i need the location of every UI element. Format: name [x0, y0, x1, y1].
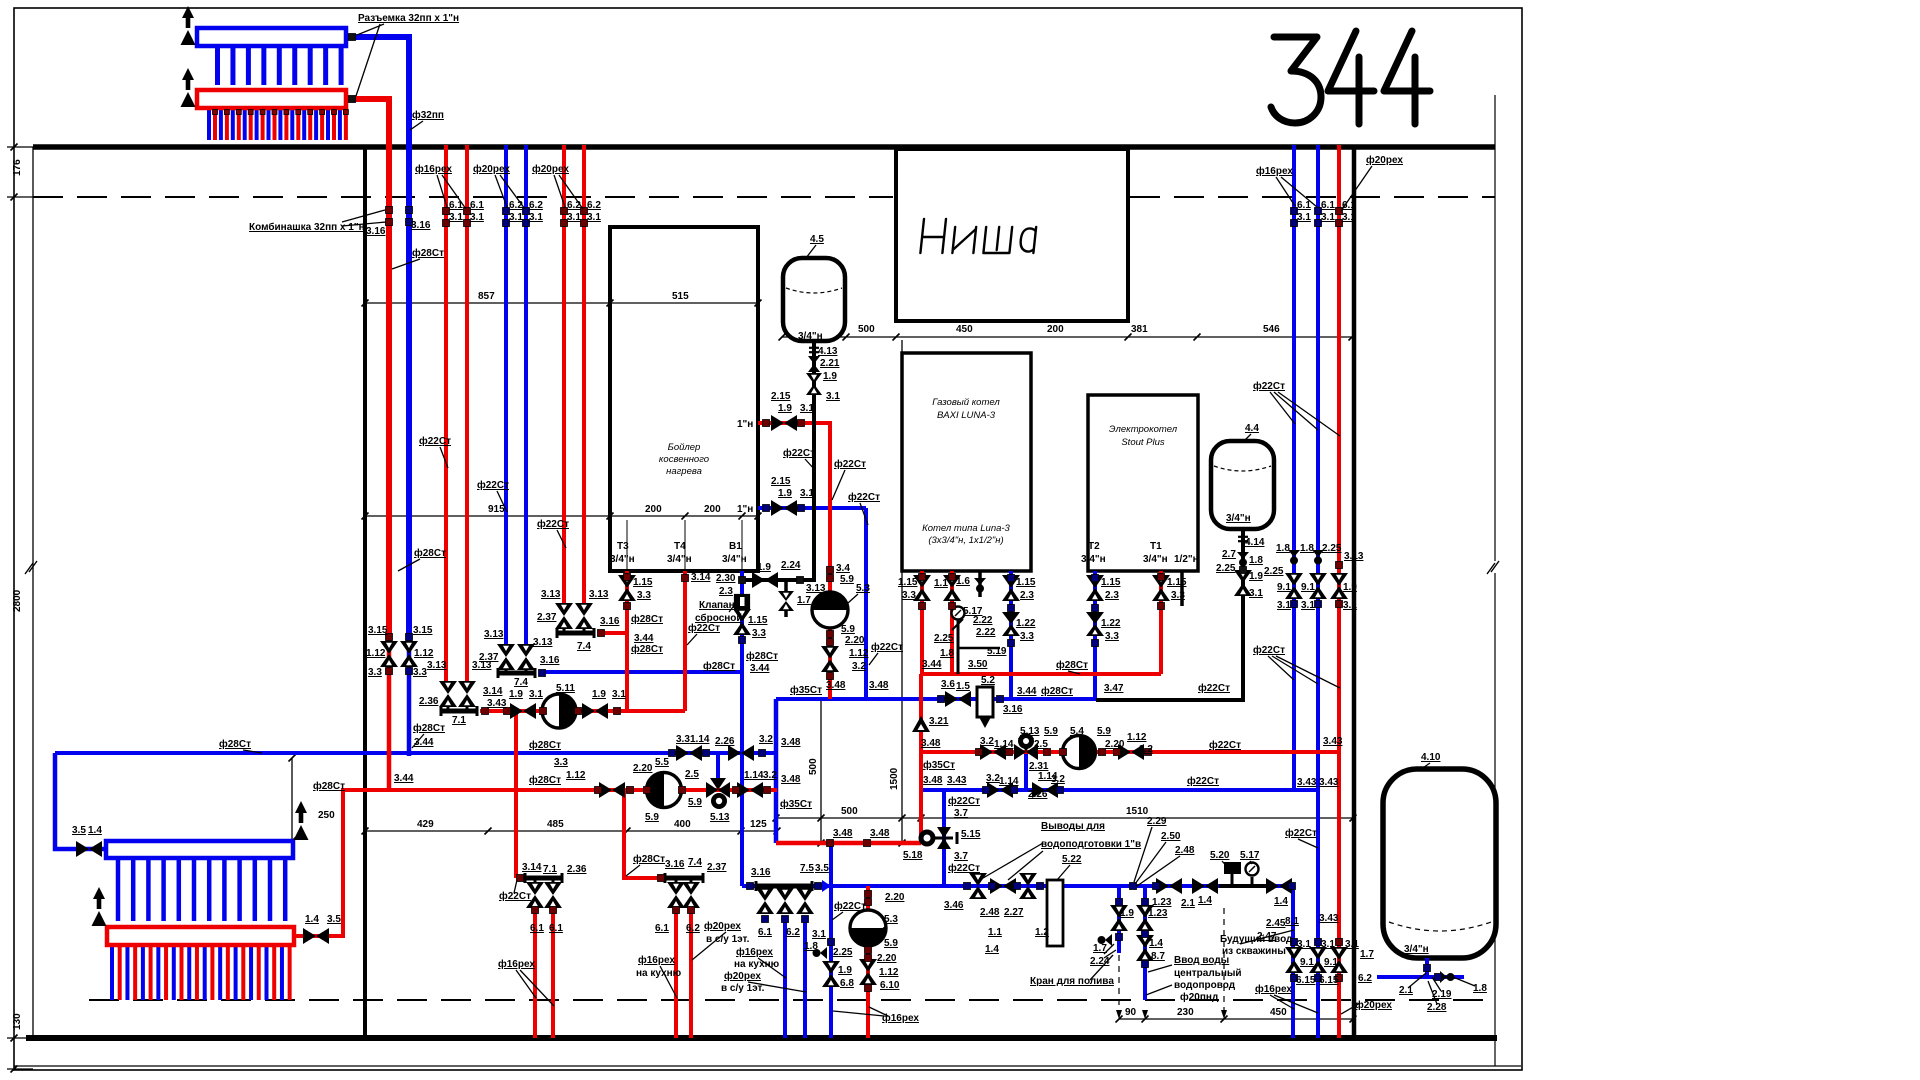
- svg-text:3.44: 3.44: [750, 663, 770, 674]
- svg-text:1.9: 1.9: [1249, 571, 1263, 582]
- svg-text:2.3: 2.3: [1020, 590, 1034, 601]
- svg-text:Ввод воды: Ввод воды: [1174, 955, 1229, 966]
- svg-text:500: 500: [858, 324, 875, 335]
- svg-text:1.4: 1.4: [1149, 938, 1163, 949]
- svg-text:2.25: 2.25: [1264, 566, 1284, 577]
- svg-text:3.16: 3.16: [751, 867, 771, 878]
- svg-text:3.43: 3.43: [947, 775, 967, 786]
- svg-text:2.20: 2.20: [1105, 739, 1125, 750]
- svg-text:Т1: Т1: [1150, 541, 1162, 552]
- svg-text:3.1: 3.1: [470, 212, 484, 223]
- svg-text:ф16рех: ф16рех: [498, 958, 535, 970]
- svg-text:1.12: 1.12: [849, 648, 869, 659]
- svg-text:1.9: 1.9: [823, 371, 837, 382]
- svg-text:ф22Ст: ф22Ст: [537, 518, 569, 530]
- svg-text:3.2: 3.2: [852, 661, 866, 672]
- svg-text:3/4"н: 3/4"н: [1404, 944, 1429, 955]
- svg-text:1.15: 1.15: [1167, 577, 1187, 588]
- svg-text:1.9: 1.9: [778, 403, 792, 414]
- svg-text:ф28Ст: ф28Ст: [633, 853, 665, 865]
- svg-text:1.9: 1.9: [592, 689, 606, 700]
- svg-text:3.1: 3.1: [1342, 212, 1356, 223]
- svg-text:1/2"н: 1/2"н: [1174, 554, 1199, 565]
- svg-text:1.14: 1.14: [999, 776, 1019, 787]
- svg-text:1.1: 1.1: [934, 578, 948, 589]
- svg-text:5.3: 5.3: [884, 914, 898, 925]
- svg-text:ф28Ст: ф28Ст: [746, 650, 778, 662]
- svg-text:3.1: 3.1: [529, 212, 543, 223]
- svg-text:ф16рех: ф16рех: [882, 1012, 919, 1024]
- svg-text:3/4"н: 3/4"н: [722, 554, 747, 565]
- svg-text:3.46: 3.46: [944, 900, 964, 911]
- svg-text:4.14: 4.14: [1245, 537, 1265, 548]
- svg-text:1.12: 1.12: [879, 967, 899, 978]
- svg-text:ф20рех: ф20рех: [473, 163, 510, 175]
- svg-text:3.13: 3.13: [806, 583, 826, 594]
- svg-text:3.48: 3.48: [923, 775, 943, 786]
- svg-text:3.48: 3.48: [869, 680, 889, 691]
- svg-text:3.5: 3.5: [327, 914, 341, 925]
- svg-text:ф16рех: ф16рех: [736, 946, 773, 958]
- svg-text:2.20: 2.20: [885, 892, 905, 903]
- svg-text:3.1: 3.1: [1301, 600, 1315, 611]
- svg-text:Т3: Т3: [617, 541, 629, 552]
- svg-text:200: 200: [1047, 324, 1064, 335]
- svg-text:Кран для полива: Кран для полива: [1030, 976, 1114, 987]
- svg-text:1.15: 1.15: [633, 577, 653, 588]
- svg-text:В1: В1: [729, 541, 742, 552]
- svg-text:3.1: 3.1: [826, 391, 840, 402]
- svg-text:9.1: 9.1: [1301, 582, 1315, 593]
- svg-text:ф22Ст: ф22Ст: [783, 447, 815, 459]
- svg-text:5.9: 5.9: [1097, 726, 1111, 737]
- svg-text:3.14: 3.14: [691, 572, 711, 583]
- svg-text:1.9: 1.9: [509, 689, 523, 700]
- svg-text:9.1: 9.1: [1324, 957, 1338, 968]
- svg-text:3.1: 3.1: [529, 689, 543, 700]
- svg-text:2.27: 2.27: [1004, 907, 1024, 918]
- svg-text:1.15: 1.15: [1101, 577, 1121, 588]
- svg-text:2.24: 2.24: [781, 560, 801, 571]
- svg-text:ф16рех: ф16рех: [1255, 983, 1292, 995]
- svg-text:4.10: 4.10: [1421, 752, 1441, 763]
- svg-text:ф28Ст: ф28Ст: [631, 613, 663, 625]
- svg-text:5.9: 5.9: [1044, 726, 1058, 737]
- svg-text:6.2: 6.2: [587, 200, 601, 211]
- svg-text:1.8: 1.8: [940, 648, 954, 659]
- svg-text:3.1: 3.1: [1297, 939, 1311, 950]
- svg-text:ф22Ст: ф22Ст: [499, 890, 531, 902]
- svg-text:Бойлер: Бойлер: [668, 442, 701, 453]
- svg-text:3.14: 3.14: [483, 686, 503, 697]
- svg-text:3/4"н: 3/4"н: [798, 331, 823, 342]
- svg-text:ф28Ст: ф28Ст: [1056, 659, 1088, 671]
- svg-text:ф28Ст: ф28Ст: [412, 247, 444, 259]
- svg-text:1.8: 1.8: [1276, 543, 1290, 554]
- svg-text:6.1: 6.1: [1342, 200, 1356, 211]
- svg-text:3.1: 3.1: [1345, 939, 1359, 950]
- svg-text:5.18: 5.18: [903, 850, 923, 861]
- svg-text:200: 200: [704, 504, 721, 515]
- svg-text:3/4"н: 3/4"н: [667, 554, 692, 565]
- svg-text:2.37: 2.37: [707, 862, 727, 873]
- svg-text:ф22Ст: ф22Ст: [419, 435, 451, 447]
- svg-text:BAXI LUNA-3: BAXI LUNA-3: [937, 410, 996, 421]
- svg-text:1.22: 1.22: [1101, 618, 1121, 629]
- svg-text:7.1: 7.1: [543, 864, 557, 875]
- svg-text:1.4: 1.4: [1198, 895, 1212, 906]
- svg-text:3.3: 3.3: [676, 734, 690, 745]
- svg-text:2.5: 2.5: [685, 769, 699, 780]
- svg-text:1.9: 1.9: [1343, 582, 1357, 593]
- svg-text:3.1: 3.1: [449, 212, 463, 223]
- svg-text:ф28Ст: ф28Ст: [529, 739, 561, 751]
- svg-text:3.2: 3.2: [980, 736, 994, 747]
- svg-text:1500: 1500: [889, 767, 900, 790]
- svg-text:3.16: 3.16: [540, 655, 560, 666]
- svg-text:5.9: 5.9: [840, 574, 854, 585]
- svg-text:1.1: 1.1: [988, 927, 1002, 938]
- svg-text:сбросной: сбросной: [695, 612, 743, 624]
- svg-text:3.4: 3.4: [836, 563, 850, 574]
- svg-text:6.15: 6.15: [1319, 975, 1339, 986]
- svg-text:3.7: 3.7: [954, 851, 968, 862]
- svg-text:1.22: 1.22: [1016, 618, 1036, 629]
- svg-text:ф28Ст: ф28Ст: [631, 643, 663, 655]
- svg-text:3.13: 3.13: [541, 589, 561, 600]
- svg-text:4.5: 4.5: [810, 234, 824, 245]
- svg-text:1.23: 1.23: [1148, 908, 1168, 919]
- svg-text:1.4: 1.4: [985, 944, 999, 955]
- svg-text:2.37: 2.37: [537, 612, 557, 623]
- svg-text:ф22Ст: ф22Ст: [1253, 380, 1285, 392]
- svg-text:ф32пп: ф32пп: [412, 109, 444, 121]
- svg-text:3.13: 3.13: [589, 589, 609, 600]
- svg-text:на кухню: на кухню: [636, 968, 682, 979]
- svg-text:ф22Ст: ф22Ст: [848, 491, 880, 503]
- svg-text:3.16: 3.16: [600, 616, 620, 627]
- svg-text:1.9: 1.9: [838, 965, 852, 976]
- svg-text:3.1: 3.1: [1297, 212, 1311, 223]
- svg-text:Электрокотел: Электрокотел: [1109, 424, 1178, 435]
- svg-text:нагрева: нагрева: [666, 466, 702, 477]
- svg-text:Stout Plus: Stout Plus: [1121, 437, 1165, 448]
- svg-text:500: 500: [808, 758, 819, 775]
- svg-text:3.13: 3.13: [533, 637, 553, 648]
- svg-text:6.1: 6.1: [1297, 200, 1311, 211]
- svg-text:7.4: 7.4: [688, 857, 702, 868]
- svg-text:2.30: 2.30: [716, 573, 736, 584]
- svg-text:2.5: 2.5: [1034, 739, 1048, 750]
- svg-text:1.8: 1.8: [1249, 555, 1263, 566]
- svg-text:из скважины: из скважины: [1222, 946, 1286, 957]
- svg-text:3.13: 3.13: [484, 629, 504, 640]
- svg-text:ф35Ст: ф35Ст: [780, 798, 812, 810]
- svg-text:5.4: 5.4: [1070, 726, 1084, 737]
- svg-text:Котел типа Luna-3: Котел типа Luna-3: [922, 523, 1010, 534]
- svg-text:ф20рех: ф20рех: [704, 920, 741, 932]
- svg-text:ф20рех: ф20рех: [724, 970, 761, 982]
- svg-text:3.21: 3.21: [929, 716, 949, 727]
- svg-text:2.25: 2.25: [934, 633, 954, 644]
- svg-text:ф22Ст: ф22Ст: [1253, 644, 1285, 656]
- svg-text:1.8: 1.8: [1300, 543, 1314, 554]
- svg-text:1.8: 1.8: [804, 941, 818, 952]
- svg-text:5.9: 5.9: [884, 938, 898, 949]
- svg-text:1.14: 1.14: [744, 770, 764, 781]
- svg-text:3.2: 3.2: [1051, 774, 1065, 785]
- svg-text:2.15: 2.15: [771, 391, 791, 402]
- svg-text:3.1: 3.1: [1321, 212, 1335, 223]
- svg-text:ф22Ст: ф22Ст: [871, 641, 903, 653]
- svg-text:3.43: 3.43: [1323, 736, 1343, 747]
- svg-text:3.48: 3.48: [833, 828, 853, 839]
- svg-text:ф22Ст: ф22Ст: [477, 479, 509, 491]
- svg-text:7.4: 7.4: [514, 677, 528, 688]
- svg-text:125: 125: [750, 819, 767, 830]
- svg-text:176: 176: [12, 159, 23, 176]
- svg-text:3.43: 3.43: [1319, 777, 1339, 788]
- svg-text:3/4"н: 3/4"н: [1226, 513, 1251, 524]
- svg-text:857: 857: [478, 291, 495, 302]
- svg-text:ф28Ст: ф28Ст: [313, 780, 345, 792]
- svg-text:5.9: 5.9: [688, 797, 702, 808]
- svg-text:6.8: 6.8: [840, 978, 854, 989]
- svg-text:косвенного: косвенного: [659, 454, 709, 465]
- svg-text:1.12: 1.12: [366, 648, 386, 659]
- svg-text:2.22: 2.22: [976, 627, 996, 638]
- svg-text:3.1: 3.1: [812, 929, 826, 940]
- svg-text:6.1: 6.1: [758, 927, 772, 938]
- svg-text:5.3: 5.3: [856, 583, 870, 594]
- svg-text:2.48: 2.48: [980, 907, 1000, 918]
- svg-text:3.3: 3.3: [1020, 631, 1034, 642]
- svg-text:3.13: 3.13: [1344, 551, 1364, 562]
- svg-text:Т2: Т2: [1088, 541, 1100, 552]
- svg-text:3.44: 3.44: [394, 773, 414, 784]
- svg-text:2.3: 2.3: [1105, 590, 1119, 601]
- svg-text:3.3: 3.3: [637, 590, 651, 601]
- svg-text:1.12: 1.12: [1127, 732, 1147, 743]
- svg-text:3.44: 3.44: [922, 659, 942, 670]
- svg-text:1.9: 1.9: [778, 488, 792, 499]
- svg-text:3.43: 3.43: [487, 698, 507, 709]
- svg-text:5.13: 5.13: [710, 812, 730, 823]
- svg-text:4.4: 4.4: [1245, 423, 1259, 434]
- svg-text:ф20пнд: ф20пнд: [1180, 991, 1219, 1003]
- svg-text:1510: 1510: [1126, 806, 1149, 817]
- svg-text:5.5: 5.5: [655, 757, 669, 768]
- svg-text:1.14: 1.14: [690, 734, 710, 745]
- svg-text:200: 200: [645, 504, 662, 515]
- svg-text:2.26: 2.26: [715, 736, 735, 747]
- svg-text:2.36: 2.36: [419, 696, 439, 707]
- svg-text:Газовый котел: Газовый котел: [932, 397, 1000, 408]
- svg-text:1.9: 1.9: [1120, 908, 1134, 919]
- svg-text:ф28Ст: ф28Ст: [529, 774, 561, 786]
- svg-text:Клапан: Клапан: [699, 600, 735, 611]
- svg-text:ф16рех: ф16рех: [638, 954, 675, 966]
- svg-text:3.48: 3.48: [870, 828, 890, 839]
- svg-text:2.29: 2.29: [1147, 816, 1167, 827]
- svg-text:2.3: 2.3: [719, 586, 733, 597]
- svg-text:2.20: 2.20: [845, 635, 865, 646]
- svg-text:3.5: 3.5: [815, 863, 829, 874]
- svg-text:3/4"н: 3/4"н: [1081, 554, 1106, 565]
- svg-text:5.11: 5.11: [556, 683, 575, 694]
- svg-text:6.15: 6.15: [1296, 975, 1316, 986]
- svg-text:2.36: 2.36: [567, 864, 587, 875]
- svg-text:2800: 2800: [12, 589, 23, 612]
- svg-text:3.43: 3.43: [1319, 913, 1339, 924]
- svg-text:6.2: 6.2: [786, 927, 800, 938]
- svg-text:3.3: 3.3: [413, 667, 427, 678]
- svg-text:ф22Ст: ф22Ст: [1285, 827, 1317, 839]
- svg-text:500: 500: [841, 806, 858, 817]
- svg-text:5.9: 5.9: [645, 812, 659, 823]
- svg-text:130: 130: [12, 1013, 23, 1030]
- svg-text:1.15: 1.15: [748, 615, 768, 626]
- svg-text:4.13: 4.13: [818, 346, 838, 357]
- svg-text:3.16: 3.16: [665, 859, 685, 870]
- svg-text:1.5: 1.5: [956, 681, 970, 692]
- svg-text:2.37: 2.37: [479, 652, 499, 663]
- svg-text:1.4: 1.4: [88, 825, 102, 836]
- svg-text:5.13: 5.13: [1020, 726, 1040, 737]
- svg-text:515: 515: [672, 291, 689, 302]
- svg-text:2.48: 2.48: [1175, 845, 1195, 856]
- svg-text:2.26: 2.26: [1028, 789, 1048, 800]
- svg-text:водоподготовки 1"в: водоподготовки 1"в: [1041, 839, 1141, 850]
- svg-text:3.3: 3.3: [1171, 590, 1185, 601]
- svg-text:1.15: 1.15: [1016, 577, 1036, 588]
- svg-text:2.7: 2.7: [1222, 549, 1236, 560]
- svg-text:2.25: 2.25: [833, 947, 853, 958]
- svg-text:ф20рех: ф20рех: [532, 163, 569, 175]
- svg-text:ф28Ст: ф28Ст: [219, 738, 251, 750]
- svg-text:3.15: 3.15: [413, 625, 433, 636]
- svg-text:1"н: 1"н: [737, 504, 753, 515]
- svg-text:450: 450: [956, 324, 973, 335]
- svg-text:485: 485: [547, 819, 564, 830]
- svg-text:5.22: 5.22: [1062, 854, 1082, 865]
- svg-text:ф22Ст: ф22Ст: [1209, 739, 1241, 751]
- svg-text:5.9: 5.9: [841, 624, 855, 635]
- svg-text:6.2: 6.2: [1358, 973, 1372, 984]
- svg-text:7.5: 7.5: [800, 863, 814, 874]
- svg-text:1.4: 1.4: [1274, 896, 1288, 907]
- svg-text:3.1: 3.1: [567, 212, 581, 223]
- svg-text:6.1: 6.1: [470, 200, 484, 211]
- svg-text:915: 915: [488, 504, 505, 515]
- svg-text:ф22Ст: ф22Ст: [948, 795, 980, 807]
- svg-text:546: 546: [1263, 324, 1280, 335]
- svg-text:9.1: 9.1: [1300, 957, 1314, 968]
- svg-text:водопровод: водопровод: [1174, 980, 1236, 991]
- svg-text:3.2: 3.2: [1139, 744, 1153, 755]
- svg-text:3.1: 3.1: [800, 403, 814, 414]
- svg-text:ф28Ст: ф28Ст: [413, 722, 445, 734]
- svg-text:3.44: 3.44: [1017, 686, 1037, 697]
- svg-text:1.8: 1.8: [1473, 983, 1487, 994]
- svg-text:230: 230: [1177, 1007, 1194, 1018]
- svg-text:3.1: 3.1: [1277, 600, 1291, 611]
- svg-text:450: 450: [1270, 1007, 1287, 1018]
- svg-text:3.2: 3.2: [763, 770, 777, 781]
- svg-text:ф22Ст: ф22Ст: [834, 900, 866, 912]
- svg-text:5.15: 5.15: [961, 829, 981, 840]
- svg-text:5.19: 5.19: [987, 646, 1007, 657]
- svg-text:3.43: 3.43: [1297, 777, 1317, 788]
- svg-text:ф35Ст: ф35Ст: [790, 684, 822, 696]
- svg-text:Выводы для: Выводы для: [1041, 821, 1105, 832]
- svg-text:2.20: 2.20: [877, 953, 897, 964]
- svg-text:5.17: 5.17: [1240, 850, 1260, 861]
- svg-text:3.15: 3.15: [368, 625, 388, 636]
- svg-text:381: 381: [1131, 324, 1148, 335]
- svg-text:3.5: 3.5: [72, 825, 86, 836]
- svg-text:2.21: 2.21: [820, 358, 840, 369]
- svg-text:9.1: 9.1: [1277, 582, 1291, 593]
- svg-text:ф35Ст: ф35Ст: [923, 759, 955, 771]
- svg-text:6.2: 6.2: [567, 200, 581, 211]
- svg-text:8.1: 8.1: [1285, 916, 1299, 927]
- svg-text:3.1: 3.1: [1343, 600, 1357, 611]
- svg-text:3/4"н: 3/4"н: [610, 554, 635, 565]
- svg-text:3.1: 3.1: [1321, 939, 1335, 950]
- svg-text:ф22Ст: ф22Ст: [1198, 682, 1230, 694]
- svg-text:6.1: 6.1: [1321, 200, 1335, 211]
- svg-text:2.25: 2.25: [1322, 543, 1342, 554]
- svg-text:3.48: 3.48: [826, 680, 846, 691]
- svg-text:Т4: Т4: [674, 541, 686, 552]
- svg-text:3.14: 3.14: [522, 862, 542, 873]
- svg-text:3.3: 3.3: [752, 628, 766, 639]
- svg-text:центральный: центральный: [1174, 968, 1242, 979]
- svg-text:7.1: 7.1: [452, 715, 466, 726]
- svg-text:2.20: 2.20: [633, 763, 653, 774]
- svg-text:1.12: 1.12: [566, 770, 586, 781]
- svg-text:ф22Ст: ф22Ст: [1187, 775, 1219, 787]
- svg-text:3.3: 3.3: [902, 590, 916, 601]
- svg-text:400: 400: [674, 819, 691, 830]
- svg-text:90: 90: [1125, 1007, 1137, 1018]
- svg-text:1.7: 1.7: [797, 595, 811, 606]
- svg-text:3.3: 3.3: [1105, 631, 1119, 642]
- svg-text:2.22: 2.22: [973, 615, 993, 626]
- svg-text:ф20рех: ф20рех: [1355, 999, 1392, 1011]
- svg-text:1.7: 1.7: [1360, 949, 1374, 960]
- svg-text:1.15: 1.15: [898, 577, 918, 588]
- svg-text:3.6: 3.6: [941, 679, 955, 690]
- svg-text:3.3: 3.3: [554, 757, 568, 768]
- svg-text:6.10: 6.10: [880, 980, 900, 991]
- svg-text:6.2: 6.2: [686, 923, 700, 934]
- svg-text:3.13: 3.13: [427, 660, 447, 671]
- svg-text:3/4"н: 3/4"н: [1143, 554, 1168, 565]
- svg-text:3.16: 3.16: [366, 226, 386, 237]
- svg-text:в с/у 1эт.: в с/у 1эт.: [721, 983, 765, 994]
- svg-text:1.23: 1.23: [1152, 897, 1172, 908]
- svg-text:1.2: 1.2: [1035, 927, 1049, 938]
- svg-text:(3х3/4"н, 1х1/2"н): (3х3/4"н, 1х1/2"н): [928, 535, 1003, 546]
- svg-text:3.7: 3.7: [954, 808, 968, 819]
- svg-text:3.44: 3.44: [414, 737, 434, 748]
- svg-text:2.1: 2.1: [1181, 898, 1195, 909]
- svg-text:1.14: 1.14: [994, 739, 1014, 750]
- svg-text:ф22Ст: ф22Ст: [834, 458, 866, 470]
- svg-text:7.4: 7.4: [577, 641, 591, 652]
